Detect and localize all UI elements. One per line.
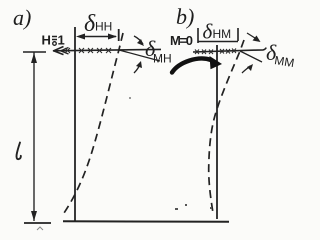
angle arrow lower a bbox=[134, 61, 142, 73]
angle arrow upper b bbox=[247, 33, 261, 42]
moment M=0 label bbox=[170, 33, 193, 48]
dimension delta-HM bbox=[198, 28, 238, 43]
dimension l bottom bar bbox=[24, 223, 51, 230]
label delta-HM bbox=[203, 20, 232, 44]
moment arc arrow bbox=[172, 56, 222, 73]
top support line b bbox=[193, 48, 266, 52]
svg-text:M=0: M=0 bbox=[170, 33, 193, 48]
svg-text:H: H bbox=[42, 33, 51, 48]
column a bbox=[74, 27, 76, 222]
label a bbox=[13, 5, 31, 30]
force H=1 label bbox=[42, 33, 65, 48]
svg-text:1: 1 bbox=[58, 33, 65, 48]
ground line bbox=[63, 220, 229, 223]
dimension l top bar bbox=[23, 51, 46, 53]
dashed deflection curve a bbox=[62, 33, 123, 216]
hatch marks on top line b bbox=[195, 49, 236, 55]
svg-text:b): b) bbox=[176, 4, 194, 29]
svg-text:НМ: НМ bbox=[213, 27, 232, 41]
column b bbox=[216, 45, 218, 219]
label delta-HH bbox=[84, 11, 112, 37]
angle arrow lower b bbox=[242, 64, 253, 73]
svg-text:НН: НН bbox=[95, 20, 112, 34]
label delta-MH bbox=[145, 36, 172, 66]
svg-text:МН: МН bbox=[153, 52, 172, 66]
svg-text:a): a) bbox=[13, 5, 31, 30]
tangent line at top b bbox=[240, 51, 262, 62]
hatch marks on top line a bbox=[65, 48, 111, 53]
tangent line at top a bbox=[119, 50, 160, 61]
specks bbox=[129, 97, 212, 210]
label b bbox=[176, 4, 194, 29]
label delta-MM bbox=[266, 40, 295, 70]
label l bbox=[16, 143, 20, 160]
dimension l vertical line bbox=[31, 53, 37, 222]
angle arrow upper a bbox=[134, 36, 144, 46]
dimension delta-HH bbox=[76, 29, 119, 41]
dashed deflection curve b bbox=[209, 40, 244, 213]
top support line a with force arrow bbox=[53, 47, 161, 55]
